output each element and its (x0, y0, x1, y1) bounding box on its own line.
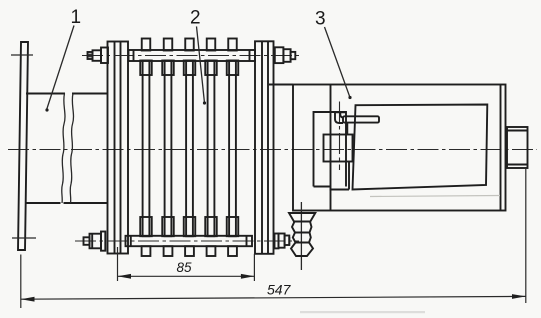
flange bolt centerline (bottom) (12, 237, 36, 239)
top rod right washer (275, 47, 284, 63)
label 1 with leader (45, 7, 81, 111)
top tie rod (82, 47, 299, 63)
top rod left threaded end (88, 52, 93, 59)
pipe break line (left) (62, 94, 65, 204)
flange bolt centerline (top) (11, 54, 33, 56)
bellows disc 2 (162, 39, 174, 257)
top rod right threaded end (291, 52, 296, 59)
bottom rod right nut (279, 234, 285, 248)
faint scan line under liner (370, 196, 500, 197)
bottom rod right washer (275, 234, 279, 249)
top rod left washer (101, 48, 108, 64)
top rod left nut (93, 50, 102, 61)
pipe (part 1) (26, 94, 108, 204)
casing housing (part 3 body) (269, 85, 506, 211)
top rod centerline (82, 55, 299, 57)
top rod right nut (283, 49, 290, 62)
casing top wall extension to bellows flange (269, 84, 293, 86)
pipe top wall left segment (26, 93, 65, 95)
pipe bottom wall left segment (26, 202, 61, 204)
svg-text:85: 85 (177, 260, 193, 275)
pipe flange (left) (11, 42, 36, 250)
bottom rod left washer (101, 232, 105, 251)
bellows right flange pack (255, 41, 274, 254)
gland stem axis (339, 102, 341, 171)
pipe break line (right) (70, 94, 73, 204)
bottom rod left nut (90, 234, 102, 249)
casing left inner wall (330, 85, 332, 211)
drain valve collar (289, 213, 315, 222)
dimension 85 (118, 247, 255, 281)
scan smudge (300, 311, 425, 313)
label 3 with leader (315, 8, 352, 99)
bottom tie rod (75, 232, 299, 251)
svg-text:3: 3 (315, 8, 326, 29)
right stub pipe (507, 127, 528, 168)
dimension 547 (21, 168, 526, 308)
main horizontal centerline (8, 149, 537, 151)
svg-text:2: 2 (190, 8, 201, 29)
svg-text:1: 1 (71, 7, 82, 28)
gland plate (314, 112, 350, 190)
casing inner liner (353, 105, 488, 190)
bellows disc 1 (140, 39, 152, 257)
top rod shank (129, 50, 256, 61)
drain valve bead 2 (293, 233, 311, 243)
svg-text:547: 547 (267, 282, 292, 298)
bellows disc 3 (184, 39, 196, 257)
bellows disc 4 (205, 39, 217, 257)
drain valve bead 1 (292, 222, 312, 233)
bottom rod left threaded end (84, 237, 90, 245)
bottom rod shank (126, 236, 253, 246)
casing right inner wall (500, 85, 502, 210)
bottom rod centerline (75, 240, 299, 242)
bottom rod right locknut (285, 236, 290, 246)
drain valve bead 3 (291, 243, 313, 257)
bellows disc 5 (227, 39, 239, 257)
drain valve axis (300, 202, 302, 270)
bellows left flange pack (108, 42, 129, 254)
label 2 with leader (190, 8, 206, 105)
stuffing box (324, 135, 353, 162)
grease lever with elbow (335, 112, 379, 134)
drain valve (289, 202, 315, 270)
pipe bottom wall right segment (64, 202, 109, 204)
pipe top wall right segment (72, 93, 108, 95)
